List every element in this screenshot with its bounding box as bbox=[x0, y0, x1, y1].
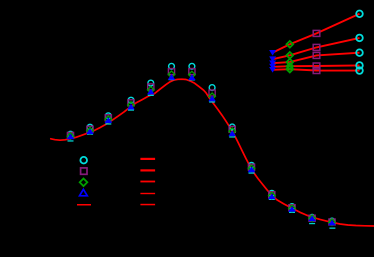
legend column 2: red line sample 2 bbox=[140, 169, 155, 171]
fit curve (red bell curve) bbox=[51, 79, 374, 226]
legend column 1: triangle entry (open) bbox=[80, 189, 88, 196]
legend column 1: diamond entry bbox=[80, 179, 88, 187]
green diamond bbox=[67, 133, 74, 140]
purple square bbox=[67, 132, 73, 138]
data cluster 8 (x=212.1) bbox=[208, 85, 216, 103]
data cluster 5 (x=150.8) bbox=[147, 80, 155, 96]
inset line 5 bbox=[273, 69, 360, 70]
data cluster 13 (x=312.1) bbox=[308, 214, 316, 224]
data cluster 4 (x=131) bbox=[127, 97, 135, 110]
legend column 2: red line sample 3 bbox=[140, 181, 155, 183]
legend column 2: red line sample 5 bbox=[140, 204, 155, 206]
blue triangle bbox=[67, 134, 75, 140]
legend column 1: square entry bbox=[81, 168, 87, 174]
inset line 3 bbox=[273, 53, 360, 64]
legend column 1: red line entry bbox=[77, 204, 91, 206]
data cluster 3 (x=108.3) bbox=[105, 113, 113, 125]
inset line 1 bbox=[273, 14, 360, 53]
inset circle markers (cyan) bbox=[356, 11, 363, 74]
data cluster 10 (x=251.5) bbox=[248, 162, 256, 173]
data cluster 14 (x=332) bbox=[328, 218, 336, 229]
cyan dash marker bbox=[68, 140, 74, 141]
data cluster 12 (x=292) bbox=[288, 204, 296, 213]
data cluster 6 (x=171.5) bbox=[168, 63, 176, 80]
legend column 1: circle entry bbox=[80, 157, 87, 164]
inset line 4 bbox=[273, 65, 360, 66]
legend column 2: red line sample 1 bbox=[140, 158, 155, 160]
data cluster 2 (x=90) bbox=[86, 124, 94, 135]
data cluster 11 (x=271.8) bbox=[268, 190, 276, 200]
inset line 2 bbox=[273, 38, 360, 59]
data cluster 1 (x=70.5) bbox=[67, 131, 75, 141]
data cluster 9 (x=232.2) bbox=[228, 124, 236, 138]
data cluster 7 (x=191.9) bbox=[188, 63, 196, 80]
inset diamond markers (green) bbox=[287, 41, 294, 73]
legend column 2: red line sample 4 bbox=[140, 193, 155, 194]
cyan circle bbox=[68, 131, 74, 137]
inset triangle markers (blue, pointing down) bbox=[269, 50, 276, 73]
inset square markers (purple) bbox=[313, 30, 320, 73]
